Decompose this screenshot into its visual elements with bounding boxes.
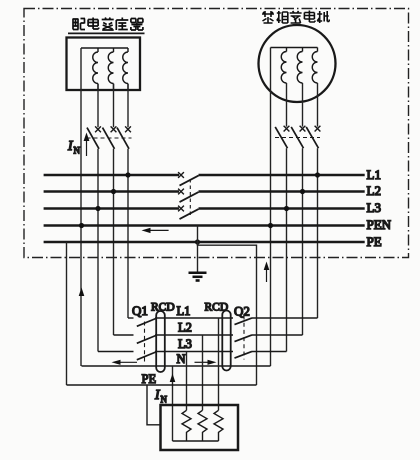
bus L3 left section [44,207,179,210]
PE tap left riser [66,242,68,385]
switch Q1 pole L1 blade [137,319,156,327]
wire: transformer phase 2 upper [113,84,115,127]
svg-text:N: N [161,395,168,405]
tie switch L2 [178,189,198,203]
stair L3 right [252,351,287,353]
PE tap right riser [198,242,257,385]
svg-text:Q1: Q1 [132,303,148,318]
node dot L1 x128 [125,172,130,177]
wire: generator phase 1 lower, to L3 and down to Q2 [286,148,288,351]
svg-text:Q2: Q2 [234,304,250,319]
switch Q2 pole L3 blade [235,351,253,358]
load resistor R2 [198,410,207,441]
generator star bar [271,47,318,49]
bus L2 right section [199,190,365,193]
svg-text:PEN: PEN [367,217,392,232]
wire: transformer phase 1 lower, to L3 and down to Q1 [97,149,99,352]
load drop L3 [186,352,188,411]
arrow up IN bottom [170,374,176,383]
breaker QF1 pole 3 [117,126,131,148]
stair L1 right [252,317,318,319]
breaker QF2 pole 1 [275,126,289,149]
svg-text:L2: L2 [367,183,381,198]
RCD toroid right [222,311,230,371]
bus L2 left section [44,190,179,193]
generator winding b [297,48,302,84]
breaker QF2 linkage (dashed) [275,137,320,139]
bus L1 right section [199,174,365,177]
row N conductor [82,365,271,367]
transformer T1 box [67,38,141,91]
label 柴油发电机 (pseudo-glyphs) [262,11,329,24]
wire: generator neutral down to PEN and N row [270,48,272,367]
load drop L2 [202,335,204,410]
breaker QF2 pole 3 [306,126,320,149]
wire: generator phase 1 upper [286,83,288,127]
row L2 conductor [155,334,233,336]
wire: generator phase 2 upper [302,83,304,127]
svg-text:L3: L3 [178,337,192,351]
arrow left on PEN [142,228,169,233]
transformer winding a [93,48,98,90]
node dot L2 x113.5 [111,189,116,194]
tie switch linkage (dashed) [189,179,191,218]
node dot PEN x270.5 [268,223,273,228]
load box [161,405,239,450]
wire: generator phase 2 lower, to L2 and down to Q2 [302,148,304,335]
switch Q2 linkage (dashed) [243,316,245,360]
node dot L2 x302.5 [300,189,305,194]
generator G circle [259,25,336,102]
bus L1 left section [44,174,179,177]
arrow up on right neutral riser [264,262,270,283]
svg-text:L1: L1 [177,304,191,318]
generator winding c [312,48,317,84]
wire: transformer phase 1 upper [97,84,99,127]
arrow up on left neutral feed [79,288,85,297]
svg-text:N: N [74,146,81,156]
row L1 conductor [155,317,233,319]
breaker QF1 linkage (dashed) [87,137,132,139]
switch Q1 pole L2 blade [137,336,156,344]
arrow IN up (left, beside neutral) [84,133,90,157]
switch Q2 pole L1 blade [235,318,253,325]
svg-text:PE: PE [142,372,157,386]
wire: generator phase 3 lower, to L1 and down to Q2 [317,148,319,318]
label underline [68,32,145,34]
bus PE [44,241,365,244]
bus PEN [44,224,365,227]
svg-text:N: N [177,352,186,366]
transformer winding b [108,48,113,90]
feeder stub L1 left [128,317,134,319]
arrow left on N row [112,360,138,365]
svg-text:L3: L3 [367,200,381,215]
earthing conductor [197,226,199,273]
tie switch L1 [178,172,198,186]
node dot L1 x317.5 [315,172,320,177]
wire: transformer phase 2 lower, to L2 and down to Q1 [113,149,115,335]
transformer star bar [81,47,128,49]
PE drop to load frame [147,385,161,425]
breaker QF1 pole 1 [87,126,101,148]
load neutral drop with IN arrow [172,366,174,441]
load resistor R3 [214,410,223,441]
load drop L1 [218,318,220,410]
arrow right on N row [195,360,217,365]
breaker QF2 pole 2 [291,126,305,149]
generator winding a [281,48,286,84]
node dot PE earth x197.5 [195,239,200,244]
svg-text:L1: L1 [367,167,381,182]
ground electrode symbol [189,273,207,281]
wire: transformer neutral down to PEN and on to N row [80,48,82,366]
feeder stub L2 left [114,334,134,336]
switch Q1 linkage (dashed) [144,322,146,364]
wire: generator phase 3 upper [317,83,319,127]
switch Q2 pole L2 blade [235,335,253,342]
tie switch L3 [178,206,198,220]
stair L2 right [252,334,303,336]
row L3 conductor [155,351,233,353]
load resistor R1 [182,410,191,441]
node dot L3 x98 [95,206,100,211]
transformer winding c [123,48,128,90]
PE row conductor [67,384,257,386]
svg-text:RCD: RCD [205,302,229,314]
svg-text:L2: L2 [178,321,192,335]
switch Q1 pole L3 blade [137,352,156,360]
feeder stub L3 left [98,351,134,353]
svg-text:PE: PE [367,234,382,249]
bus L3 right section [199,207,365,210]
label 配电变压器 (pseudo-glyphs) [73,18,143,31]
wire: transformer phase 3 lower, to L1 and down to Q1 [127,149,129,318]
node dot PEN x81.5 [79,223,84,228]
load neutral bar [173,440,219,442]
breaker QF1 pole 2 [103,126,117,148]
wire: transformer phase 3 upper [127,84,129,127]
frame (switchboard boundary, dash-dot) [24,9,409,258]
svg-text:RCD: RCD [151,302,175,314]
RCD toroid left [156,311,165,372]
node dot L3 x286.5 [284,206,289,211]
